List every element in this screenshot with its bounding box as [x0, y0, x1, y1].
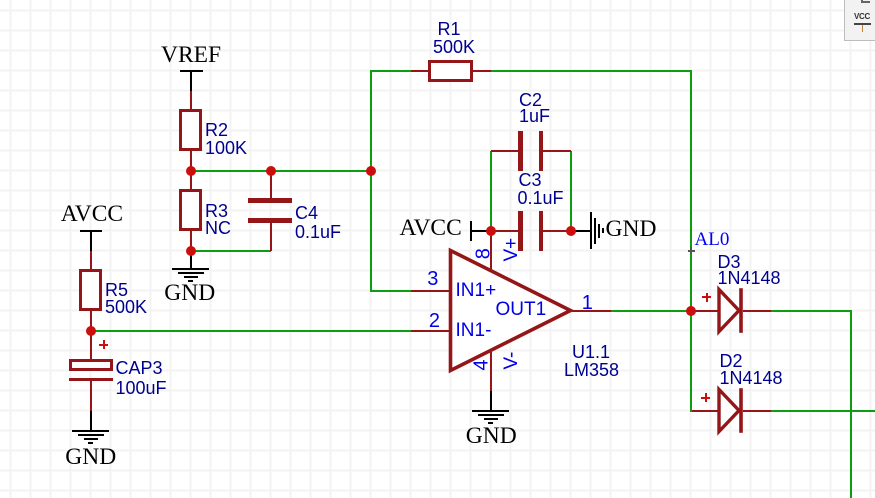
svg-text:4: 4 [471, 359, 493, 370]
svg-text:V-: V- [501, 352, 522, 370]
svg-text:V+: V+ [501, 238, 522, 262]
svg-text:8: 8 [472, 248, 494, 259]
